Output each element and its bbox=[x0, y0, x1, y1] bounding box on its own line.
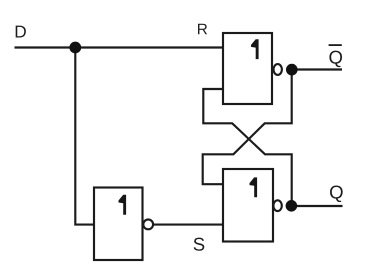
svg-text:R: R bbox=[197, 21, 208, 38]
wire S (inverter output to lower gate input) bbox=[153, 224, 223, 226]
svg-text:Q: Q bbox=[328, 47, 342, 68]
inverter output bubble bbox=[143, 220, 153, 230]
wire feedback Qbar to lower gate input (crossing) bbox=[203, 70, 292, 185]
upper gate value label 1 bbox=[251, 39, 259, 59]
upper gate output bubble bbox=[274, 64, 282, 75]
junction dot at Q node bbox=[286, 200, 298, 212]
svg-text:D: D bbox=[14, 21, 26, 41]
upper gate box (R side latch gate) bbox=[223, 33, 272, 104]
junction dot at Qbar node bbox=[286, 64, 298, 76]
lower gate output bubble bbox=[273, 200, 281, 211]
lower gate value label 1 bbox=[250, 177, 258, 197]
lower gate box (S side latch gate) bbox=[223, 169, 273, 242]
overline of Qbar bbox=[329, 44, 342, 46]
inverter gate box bbox=[94, 188, 143, 261]
wire Qbar output bbox=[292, 68, 342, 70]
inverter value label 1 bbox=[119, 195, 127, 215]
svg-text:Q: Q bbox=[329, 182, 343, 203]
wire D input horizontal bbox=[15, 46, 224, 48]
junction dot on D line bbox=[69, 42, 81, 54]
wire Q output bbox=[292, 205, 343, 207]
svg-text:S: S bbox=[193, 234, 205, 255]
wire feedback Q to upper gate input (crossing) bbox=[203, 89, 291, 206]
wire D vertical branch to inverter input bbox=[75, 48, 94, 225]
